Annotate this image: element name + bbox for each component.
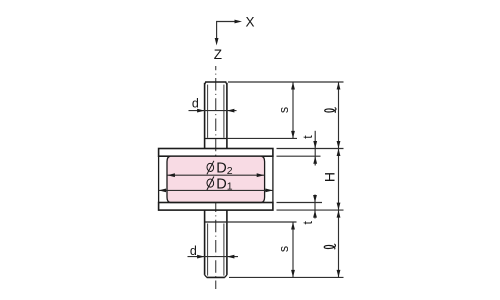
dim l top label (script ell): [325, 108, 336, 113]
dim phiD2 label: [206, 161, 232, 177]
dim l bottom label (script ell): [324, 244, 335, 249]
bottom stud (threaded): [205, 210, 227, 277]
extension line stud top: [228, 81, 344, 83]
top stud (threaded): [205, 82, 227, 149]
top plate: [159, 149, 273, 157]
svg-text:d: d: [192, 97, 199, 111]
svg-text:t: t: [301, 221, 315, 225]
dim t bottom line: [314, 195, 316, 219]
svg-text:X: X: [245, 15, 254, 30]
svg-text:s: s: [277, 246, 291, 252]
axis Z arrow: [214, 38, 222, 62]
dim d top line: [189, 110, 237, 112]
side line left connecting plates: [158, 156, 160, 202]
dim l bottom line: [338, 210, 340, 277]
extension line plate1 bottom: [277, 155, 321, 157]
svg-text:t: t: [301, 135, 315, 139]
svg-text:s: s: [277, 107, 291, 113]
dim d top arrows: [197, 109, 205, 113]
svg-text:Z: Z: [214, 47, 222, 62]
dim phiD2 line: [167, 174, 264, 176]
dim s top line: [292, 82, 294, 138]
centerline: [215, 66, 217, 289]
dim phiD1 line: [159, 189, 273, 191]
rubber body (pink): [167, 156, 265, 202]
side line right connecting plates: [272, 156, 274, 202]
extension line stud bottom: [229, 276, 344, 278]
extension line thread end top: [227, 137, 298, 139]
dim phiD1 label: [206, 176, 232, 192]
dim d bottom line: [188, 256, 239, 258]
extension line plate1 top: [277, 148, 344, 150]
extension line thread start bottom: [227, 221, 297, 223]
svg-text:H: H: [322, 172, 338, 182]
axis X arrow: [217, 15, 255, 43]
dim H line: [338, 149, 340, 211]
extension line plate2 bottom: [277, 209, 344, 211]
bottom plate: [159, 203, 273, 211]
dim d bottom arrows: [197, 255, 205, 259]
dim s bottom line: [292, 222, 294, 277]
dim t top line: [314, 131, 316, 166]
extension line plate2 top: [277, 202, 323, 204]
dim l top line: [338, 82, 340, 149]
